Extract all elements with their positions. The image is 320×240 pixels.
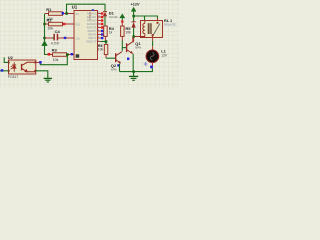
svg-text:10k: 10k (98, 48, 104, 52)
switch blade (153, 24, 160, 35)
pin state square (blue) right of Q2 label (117, 64, 119, 66)
lamp L1 (146, 49, 168, 63)
svg-text:RA0/AN0: RA0/AN0 (87, 13, 97, 16)
node: R3-U2 wire junction (66, 53, 69, 56)
svg-text:RB3/CCP: RB3/CCP (86, 42, 96, 44)
wire: Q1 base node to Q2 collector (121, 48, 123, 51)
resistor R3 (48, 48, 74, 63)
svg-text:RA3/AN3: RA3/AN3 (87, 23, 97, 26)
svg-text:RB1/RX: RB1/RX (88, 35, 97, 37)
pin state square (red) at IC pin row2 (63, 23, 65, 25)
lamp bottom pin (151, 62, 153, 66)
wire: lamp bottom to ground rail (120, 68, 153, 71)
svg-text:NPN: NPN (135, 45, 141, 49)
capacitor C4 (45, 29, 74, 46)
svg-text:RL 1: RL 1 (164, 19, 172, 23)
wire: R5 bottom down to Q1 base node (121, 36, 123, 40)
pin state square (blue) near Q1 emitter (127, 58, 129, 60)
pin dots (8, 62, 10, 64)
svg-text:RS: RS (76, 14, 80, 16)
resistor R1 (45, 7, 74, 21)
pin state square (blue) on U2 pin2 wire (1, 69, 4, 72)
blue pin number marks above top pins (92, 9, 94, 11)
node: R4/R8 junction (105, 40, 108, 43)
diode D2 (flyback) (132, 16, 136, 37)
wire: +12V rail to relay pins (134, 16, 158, 18)
node: ground rail junction (132, 70, 135, 73)
wire: Q2 emitter down to ground rail (119, 64, 121, 72)
svg-text:RA4/TCK: RA4/TCK (87, 27, 97, 30)
node: +12V junction (132, 15, 135, 17)
wire: D1 to R4 (104, 16, 106, 26)
svg-text:NPN: NPN (111, 68, 117, 72)
wire: from R3 node down then left to U2 top-right pin (40, 56, 67, 65)
power symbol +12V (131, 2, 140, 16)
svg-text:10k: 10k (125, 30, 131, 34)
node: rail-R2 junction (43, 23, 45, 25)
coil arcs (143, 23, 145, 33)
IC U1 right pin names (tiny) (86, 13, 97, 44)
ground (main) (129, 73, 138, 81)
diode D1 (103, 11, 118, 19)
node: rail-C4 junction (43, 37, 45, 39)
pin state squares on IC right pins (101, 12, 103, 39)
svg-text:PC817: PC817 (8, 75, 18, 79)
wire: R8 bottom to Q2 base (106, 57, 115, 59)
pin state square (blue) at U2 top-right pin (39, 61, 42, 64)
transistor Q2 (111, 51, 123, 71)
svg-text:RA1/AN1: RA1/AN1 (87, 16, 97, 19)
coil core bars (148, 23, 151, 34)
pin MCLR block inside bottom-left (76, 54, 80, 57)
IC U1 left pin names (tiny) (76, 14, 81, 41)
svg-text:R1: R1 (46, 7, 52, 12)
pin state square (blue) at IC pin row1 (62, 12, 64, 14)
wire: junction down to Q1 collector (132, 38, 135, 42)
IC U1 (72, 5, 98, 60)
wire: relay NO contact down to lamp (152, 38, 154, 51)
wire: top link from R1 node up and over to D1 (67, 4, 106, 13)
svg-text:12V: 12V (161, 54, 168, 58)
wire: Q1 emitter down to ground rail (132, 54, 134, 72)
transistor Q1 (122, 37, 141, 54)
wire: junction to relay coil bottom pin (135, 36, 141, 38)
node: R1-IC pin junction (65, 12, 68, 15)
svg-text:U2: U2 (8, 55, 14, 60)
svg-text:10k: 10k (53, 58, 59, 62)
wire: U2 top-right pin stub (36, 61, 41, 63)
resistor R8 (vertical) (98, 42, 108, 58)
pin state square (red) at R3 left (48, 53, 51, 56)
phototransistor inside (22, 62, 36, 72)
svg-text:+12V: +12V (131, 2, 140, 6)
wire: U2 bottom-right pin to ground (36, 71, 48, 78)
svg-text:10k: 10k (47, 27, 53, 31)
pin state square (red) at R5 top (121, 20, 123, 22)
LED inside (11, 62, 17, 72)
svg-text:U1: U1 (72, 5, 78, 10)
svg-text:4.7nF: 4.7nF (51, 42, 60, 46)
wire: U2 pin1 stub (4, 57, 8, 62)
svg-text:1N4148: 1N4148 (109, 16, 118, 19)
pin state square (blue) at lamp bottom (150, 66, 153, 69)
relay RL1 (141, 19, 177, 37)
marker cross near lamp (144, 62, 148, 66)
resistor R5 (vertical) (121, 23, 132, 37)
ground (left, below U2 wire) (44, 78, 52, 82)
wire: IC pin row9 to R4 bottom and R8 top (101, 41, 107, 43)
IC U1 right pin stubs (98, 14, 101, 42)
svg-text:C4: C4 (55, 29, 61, 34)
svg-text:R2: R2 (47, 18, 53, 23)
resistor R4 (vertical) (104, 26, 115, 42)
svg-text:RB2/TX: RB2/TX (88, 38, 97, 40)
pin state square (blue) near IC MCLR pin (71, 53, 73, 55)
power arrow on left rail (42, 41, 47, 45)
svg-text:1k: 1k (109, 30, 113, 34)
pin state square (blue) at IC pin row C4 (64, 37, 66, 39)
IC U1 right pin numbers (tiny blue) (98, 12, 101, 42)
power arrow above R5 (120, 14, 124, 20)
svg-text:D1: D1 (109, 11, 115, 16)
svg-text:RS1: RS1 (76, 24, 81, 26)
svg-text:CLK: CLK (76, 38, 81, 40)
wire: left vertical rail x=44.5 from R1 down to R3 row (45, 14, 49, 55)
wire: U2 pin2 from left edge (0, 70, 9, 72)
svg-text:RA2/AN2: RA2/AN2 (87, 20, 97, 23)
resistor R2 (45, 18, 74, 31)
svg-text:R3: R3 (52, 48, 58, 53)
node: collector/coil/diode junction (132, 35, 135, 38)
wire: drop to relay coil top pin (144, 16, 146, 21)
svg-text:RB0/INT: RB0/INT (88, 31, 97, 33)
optocoupler U2 (8, 55, 36, 79)
svg-text:RELAYDC: RELAYDC (164, 23, 177, 27)
